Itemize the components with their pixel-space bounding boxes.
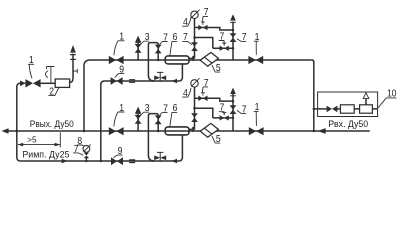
valve 7 on impulse header (lower) — [191, 113, 198, 117]
junction node (upper vent top) — [232, 29, 235, 32]
dimension line with arrows — [18, 144, 60, 146]
gauge cock (vertical mini bowtie) — [84, 153, 89, 156]
wire: gauge purge line y=98.3 (lower) — [195, 98, 234, 101]
junction node (gauge 8 stem) — [85, 160, 88, 163]
inlet flow arrow (Рвх) — [318, 128, 326, 134]
junction node (upper vent bottom) — [232, 47, 235, 50]
junction node (lower T1 impulse header) — [193, 107, 196, 110]
insulating joint (lower) — [129, 160, 135, 163]
wire: box 2 outlet curving up into vent stack — [70, 54, 73, 83]
valve 1 (upper train left) — [109, 56, 116, 64]
pressure gauge 8 — [83, 145, 90, 152]
regulator 6 (upper) — [165, 56, 189, 64]
svg-text:Римп. Ду25: Римп. Ду25 — [22, 149, 69, 160]
wire: second purge line y=108.3 (lower) — [195, 108, 234, 118]
valve 7 with handle on second purge line (lower) — [220, 115, 225, 120]
regulator 6 (lower) — [165, 127, 189, 135]
impulse header vertical (upper, x=194.5) — [189, 19, 194, 61]
pressure gauge 4 (lower) — [191, 80, 198, 87]
valve 7 with handle on gauge purge line (lower) — [198, 96, 203, 102]
device box 2 — [55, 79, 69, 87]
meter body 1 — [340, 105, 354, 113]
svg-text:Рвх. Ду50: Рвх. Ду50 — [328, 119, 368, 130]
meter body 2 (corrector) — [360, 105, 373, 113]
corrector vent stub with arrow — [365, 98, 367, 105]
valve (metering unit) — [327, 106, 332, 113]
wire: upper bypass/impulse line y=81 to upper regulator riser — [105, 64, 183, 81]
wire: outlet / lower main line y=131 — [5, 130, 370, 132]
outlet flow arrow (Рвых) — [2, 128, 9, 134]
valve 7 on impulse header (upper) — [191, 42, 198, 46]
vent stack (lower train, x=233) — [232, 93, 234, 131]
vent stack (upper train, x=233) — [232, 22, 234, 60]
svg-text:Рвых. Ду50: Рвых. Ду50 — [30, 119, 74, 130]
junction node (metering line tap) — [313, 108, 316, 111]
wire: metering line y=108.9 — [314, 108, 377, 110]
wire: upper bridge tap with valve 7 over main line — [148, 43, 158, 81]
insulating joint (upper) — [129, 80, 135, 83]
valve 7 on vent stack (upper) — [230, 33, 237, 37]
valve 1 (upper train right) — [248, 56, 255, 64]
impulse flow arrow — [62, 159, 68, 164]
gauge 8 assembly stem on impulse line — [85, 158, 87, 161]
valve 1 (lower train left) — [109, 127, 116, 135]
filter 5 (lower) — [200, 123, 218, 137]
junction node (V1 / outlet line) — [16, 130, 19, 133]
safety relief valve 3 (lower) — [137, 114, 139, 131]
wire: gauge purge line y=27.5 (upper) — [195, 28, 234, 31]
valve 7 on vent stack (lower) — [230, 105, 237, 109]
wire: lower bridge tap with valve 7 — [148, 114, 158, 161]
svg-text:>5: >5 — [27, 136, 37, 145]
purge cock on lower impulse line — [157, 152, 163, 161]
flow arrow into valve 1 (upper-left) — [20, 81, 26, 87]
wire: left tap riser V1 with corner to blowdown line y=83.3 — [17, 83, 25, 161]
valve 7 on lower bridge (vertical) — [155, 115, 162, 119]
junction node (upper T1 impulse header) — [193, 36, 196, 39]
valve 7 with handle on gauge purge line (upper) — [198, 25, 203, 31]
pressure gauge 4 (upper) — [191, 11, 198, 18]
impulse header vertical (lower, x=194.5) — [189, 87, 194, 132]
vent stack crossbars — [70, 55, 76, 60]
valve 1 (upper-left shutoff) — [25, 79, 33, 87]
filter 5 (upper) — [200, 52, 218, 66]
valve 9 (upper bypass) — [111, 77, 117, 85]
valve 7 with handle on second purge line (upper) — [220, 46, 225, 51]
junction node (upper bridge / main) — [157, 59, 160, 62]
thermometer pocket on blowdown line — [47, 67, 55, 84]
safety relief valve 3 (upper) — [137, 43, 139, 60]
purge cock on upper impulse line — [157, 72, 163, 81]
wire: impulse line y=161 from V1 corner to lower regulator riser — [21, 135, 183, 161]
junction node (V4 / impulse line) — [100, 160, 103, 163]
junction node (lower vent bottom) — [232, 117, 235, 120]
vent stack arrow to atmosphere — [70, 45, 76, 53]
valve 7 on upper bridge (vertical) — [155, 45, 162, 49]
wire: V4 riser bypass->impulse — [101, 81, 105, 161]
flow arrow on lower impulse line — [171, 159, 177, 164]
junction node (lower vent top) — [232, 100, 235, 103]
flow arrow on upper impulse line — [171, 79, 177, 84]
dimension extension line x=60.3 — [59, 132, 61, 147]
vent stack side tap with plug — [73, 69, 77, 74]
wire: upper main line y=60 with left corner down to outlet — [84, 60, 312, 131]
junction node (lower bridge / main) — [157, 130, 160, 133]
wire: second purge line y=37.5 (upper) — [195, 38, 234, 49]
valve 9 (lower impulse line) — [111, 157, 117, 165]
valve 1 (lower train right) — [249, 127, 256, 135]
junction node (V3 / outlet line) — [83, 130, 86, 133]
metering unit enclosure box 10 — [318, 92, 378, 117]
junction node (inlet riser T) — [313, 130, 316, 133]
wire: from valve 1 to box 2 — [41, 82, 56, 84]
wire: right riser from upper main down to inlet T — [312, 60, 314, 131]
